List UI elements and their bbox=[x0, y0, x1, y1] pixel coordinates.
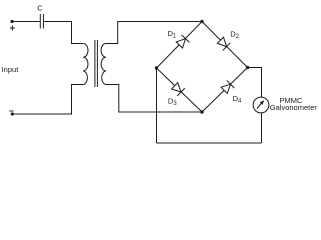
wire capacitor to corner bbox=[44, 22, 83, 44]
galvanometer circle bbox=[253, 97, 269, 113]
wire bridge side top-left bbox=[157, 22, 203, 69]
wire rail up to galvanometer bottom bbox=[261, 113, 263, 143]
node bridge right junction bbox=[246, 66, 249, 69]
node - input terminal dot bbox=[11, 112, 14, 115]
transformer primary winding bbox=[83, 44, 88, 85]
galvanometer needle arrow bbox=[257, 102, 263, 109]
wire primary bottom to input- bbox=[14, 85, 84, 115]
wire input+ to capacitor bbox=[12, 21, 40, 23]
svg-text:Galvonometer: Galvonometer bbox=[270, 103, 318, 112]
wire bridge side bottom-left bbox=[157, 68, 203, 112]
wire bridge left down to bottom rail bbox=[156, 68, 158, 143]
wire bottom rail bbox=[157, 142, 262, 144]
diode D1 bbox=[176, 35, 189, 48]
transformer core bbox=[95, 40, 98, 87]
diode D3 bbox=[172, 83, 185, 96]
transformer secondary winding bbox=[101, 44, 106, 85]
node bridge top junction bbox=[200, 20, 203, 23]
minus sign bbox=[9, 110, 13, 112]
node bridge bottom junction bbox=[200, 110, 203, 113]
plus sign bbox=[10, 26, 15, 31]
diode D2 bbox=[217, 37, 230, 50]
diode D4 bbox=[221, 80, 234, 93]
wire secondary bottom to bridge bottom bbox=[106, 85, 202, 113]
wire bridge side top-right bbox=[202, 22, 248, 68]
capacitor C bbox=[40, 14, 43, 29]
wire bridge right to galvanometer top bbox=[248, 68, 262, 98]
svg-text:C: C bbox=[37, 4, 43, 13]
wire bridge side bottom-right bbox=[202, 68, 248, 113]
wire secondary top to bridge top bbox=[106, 22, 202, 44]
node bridge left junction bbox=[155, 66, 158, 69]
svg-text:Input: Input bbox=[2, 65, 20, 74]
node + input terminal dot bbox=[10, 20, 13, 23]
